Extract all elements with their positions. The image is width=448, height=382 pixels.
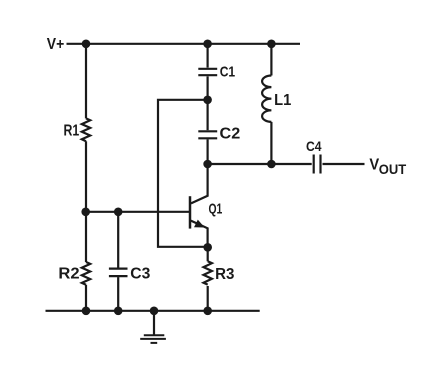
svg-text:V: V [369, 156, 379, 173]
svg-text:C1: C1 [220, 63, 236, 80]
svg-text:R2: R2 [58, 265, 79, 283]
svg-text:V+: V+ [47, 36, 64, 53]
svg-text:R3: R3 [215, 266, 235, 283]
svg-text:Q1: Q1 [209, 201, 223, 217]
svg-text:C3: C3 [130, 266, 150, 283]
svg-text:R1: R1 [64, 122, 80, 140]
svg-text:OUT: OUT [379, 162, 407, 178]
svg-text:C2: C2 [220, 125, 241, 143]
svg-text:L1: L1 [274, 92, 291, 109]
svg-text:C4: C4 [306, 138, 322, 154]
